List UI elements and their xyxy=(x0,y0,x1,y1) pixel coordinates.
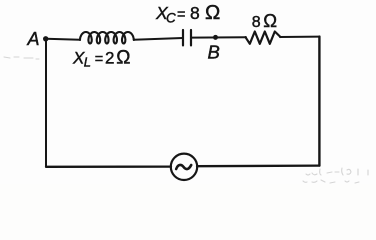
svg-text:A: A xyxy=(27,29,40,49)
inductor coil XL xyxy=(80,32,134,44)
wire right side vertical xyxy=(318,37,320,166)
wire node A to inductor xyxy=(46,39,80,40)
svg-text:8Ω: 8Ω xyxy=(252,10,277,31)
wire left side vertical xyxy=(45,39,47,167)
node B junction dot xyxy=(213,35,218,40)
wire inductor to capacitor xyxy=(134,38,183,40)
svg-text:XC=8Ω: XC=8Ω xyxy=(155,1,220,25)
node A junction dot xyxy=(43,36,48,41)
wire bottom right xyxy=(197,164,319,167)
wire bottom left xyxy=(46,165,171,167)
wire resistor to top-right corner xyxy=(280,36,320,38)
wire capacitor to resistor through node B xyxy=(192,36,246,38)
scan noise bottom-right row1 xyxy=(4,57,368,183)
resistor 8 ohm zigzag xyxy=(246,32,281,44)
capacitor XC left plate xyxy=(182,30,184,45)
svg-text:B: B xyxy=(208,42,220,63)
AC source circle xyxy=(171,154,197,180)
AC source sine wave symbol xyxy=(176,165,191,169)
svg-text:XL=2Ω: XL=2Ω xyxy=(72,47,130,69)
capacitor XC right plate xyxy=(190,30,192,45)
